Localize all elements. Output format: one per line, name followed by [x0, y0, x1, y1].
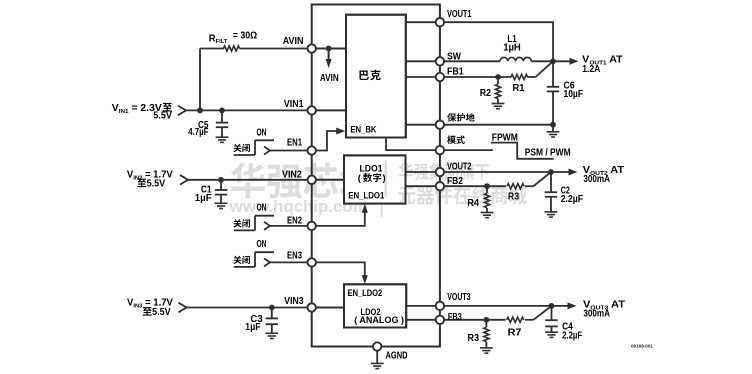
- svg-text:AVIN: AVIN: [320, 73, 339, 84]
- svg-text:FB1: FB1: [447, 67, 464, 78]
- svg-text:ON: ON: [256, 239, 266, 250]
- svg-text:R1: R1: [513, 83, 526, 94]
- svg-text:SW: SW: [447, 52, 462, 63]
- svg-text:VOUT1: VOUT1: [447, 9, 472, 20]
- svg-text:R3: R3: [467, 333, 479, 344]
- svg-text:): ): [383, 173, 386, 184]
- svg-text:5.5V: 5.5V: [147, 178, 166, 189]
- svg-text:1.2A: 1.2A: [582, 64, 600, 75]
- svg-text:FB3: FB3: [448, 312, 462, 323]
- svg-text:LDO1: LDO1: [360, 163, 384, 174]
- svg-text:1µH: 1µH: [503, 43, 521, 54]
- svg-text:= 30Ω: = 30Ω: [233, 31, 258, 42]
- svg-text:10µF: 10µF: [564, 89, 584, 100]
- svg-text:VIN1: VIN1: [284, 99, 304, 110]
- svg-text:ON: ON: [256, 127, 266, 138]
- svg-text:FB2: FB2: [447, 176, 463, 187]
- svg-text:EN_BK: EN_BK: [350, 124, 376, 135]
- svg-text:5.5V: 5.5V: [152, 307, 171, 318]
- svg-text:300mA: 300mA: [583, 174, 610, 185]
- svg-text:EN1: EN1: [287, 137, 302, 148]
- svg-text:R2: R2: [480, 88, 491, 99]
- svg-text:ON: ON: [256, 203, 266, 214]
- svg-text:VOUT2: VOUT2: [447, 161, 472, 172]
- svg-text:2.2µF: 2.2µF: [562, 331, 582, 342]
- svg-text:VIN2: VIN2: [282, 170, 302, 181]
- svg-text:VOUT3: VOUT3: [447, 292, 471, 303]
- svg-text:EN3: EN3: [287, 251, 302, 262]
- svg-text:4.7µF: 4.7µF: [188, 127, 208, 138]
- svg-text:09168-001: 09168-001: [631, 343, 653, 348]
- svg-text:FPWM: FPWM: [492, 132, 518, 143]
- svg-text:AGND: AGND: [386, 351, 408, 362]
- svg-text:EN2: EN2: [287, 215, 302, 226]
- svg-text:( ANALOG ): ( ANALOG ): [354, 315, 404, 325]
- svg-text:AVIN: AVIN: [283, 36, 304, 47]
- svg-text:2.2µF: 2.2µF: [561, 194, 583, 205]
- svg-text:5.5V: 5.5V: [153, 111, 172, 122]
- svg-text:EN_LDO1: EN_LDO1: [348, 190, 385, 201]
- svg-text:R3: R3: [508, 191, 520, 202]
- svg-text:1µF: 1µF: [245, 322, 261, 333]
- svg-text:EN_LDO2: EN_LDO2: [348, 288, 383, 299]
- svg-text:R7: R7: [508, 328, 522, 339]
- svg-text:PSM / PWM: PSM / PWM: [525, 148, 571, 159]
- svg-text:R4: R4: [467, 198, 479, 209]
- svg-text:VIN3: VIN3: [284, 296, 304, 307]
- svg-text:300mA: 300mA: [583, 309, 610, 320]
- svg-text:1µF: 1µF: [195, 193, 212, 204]
